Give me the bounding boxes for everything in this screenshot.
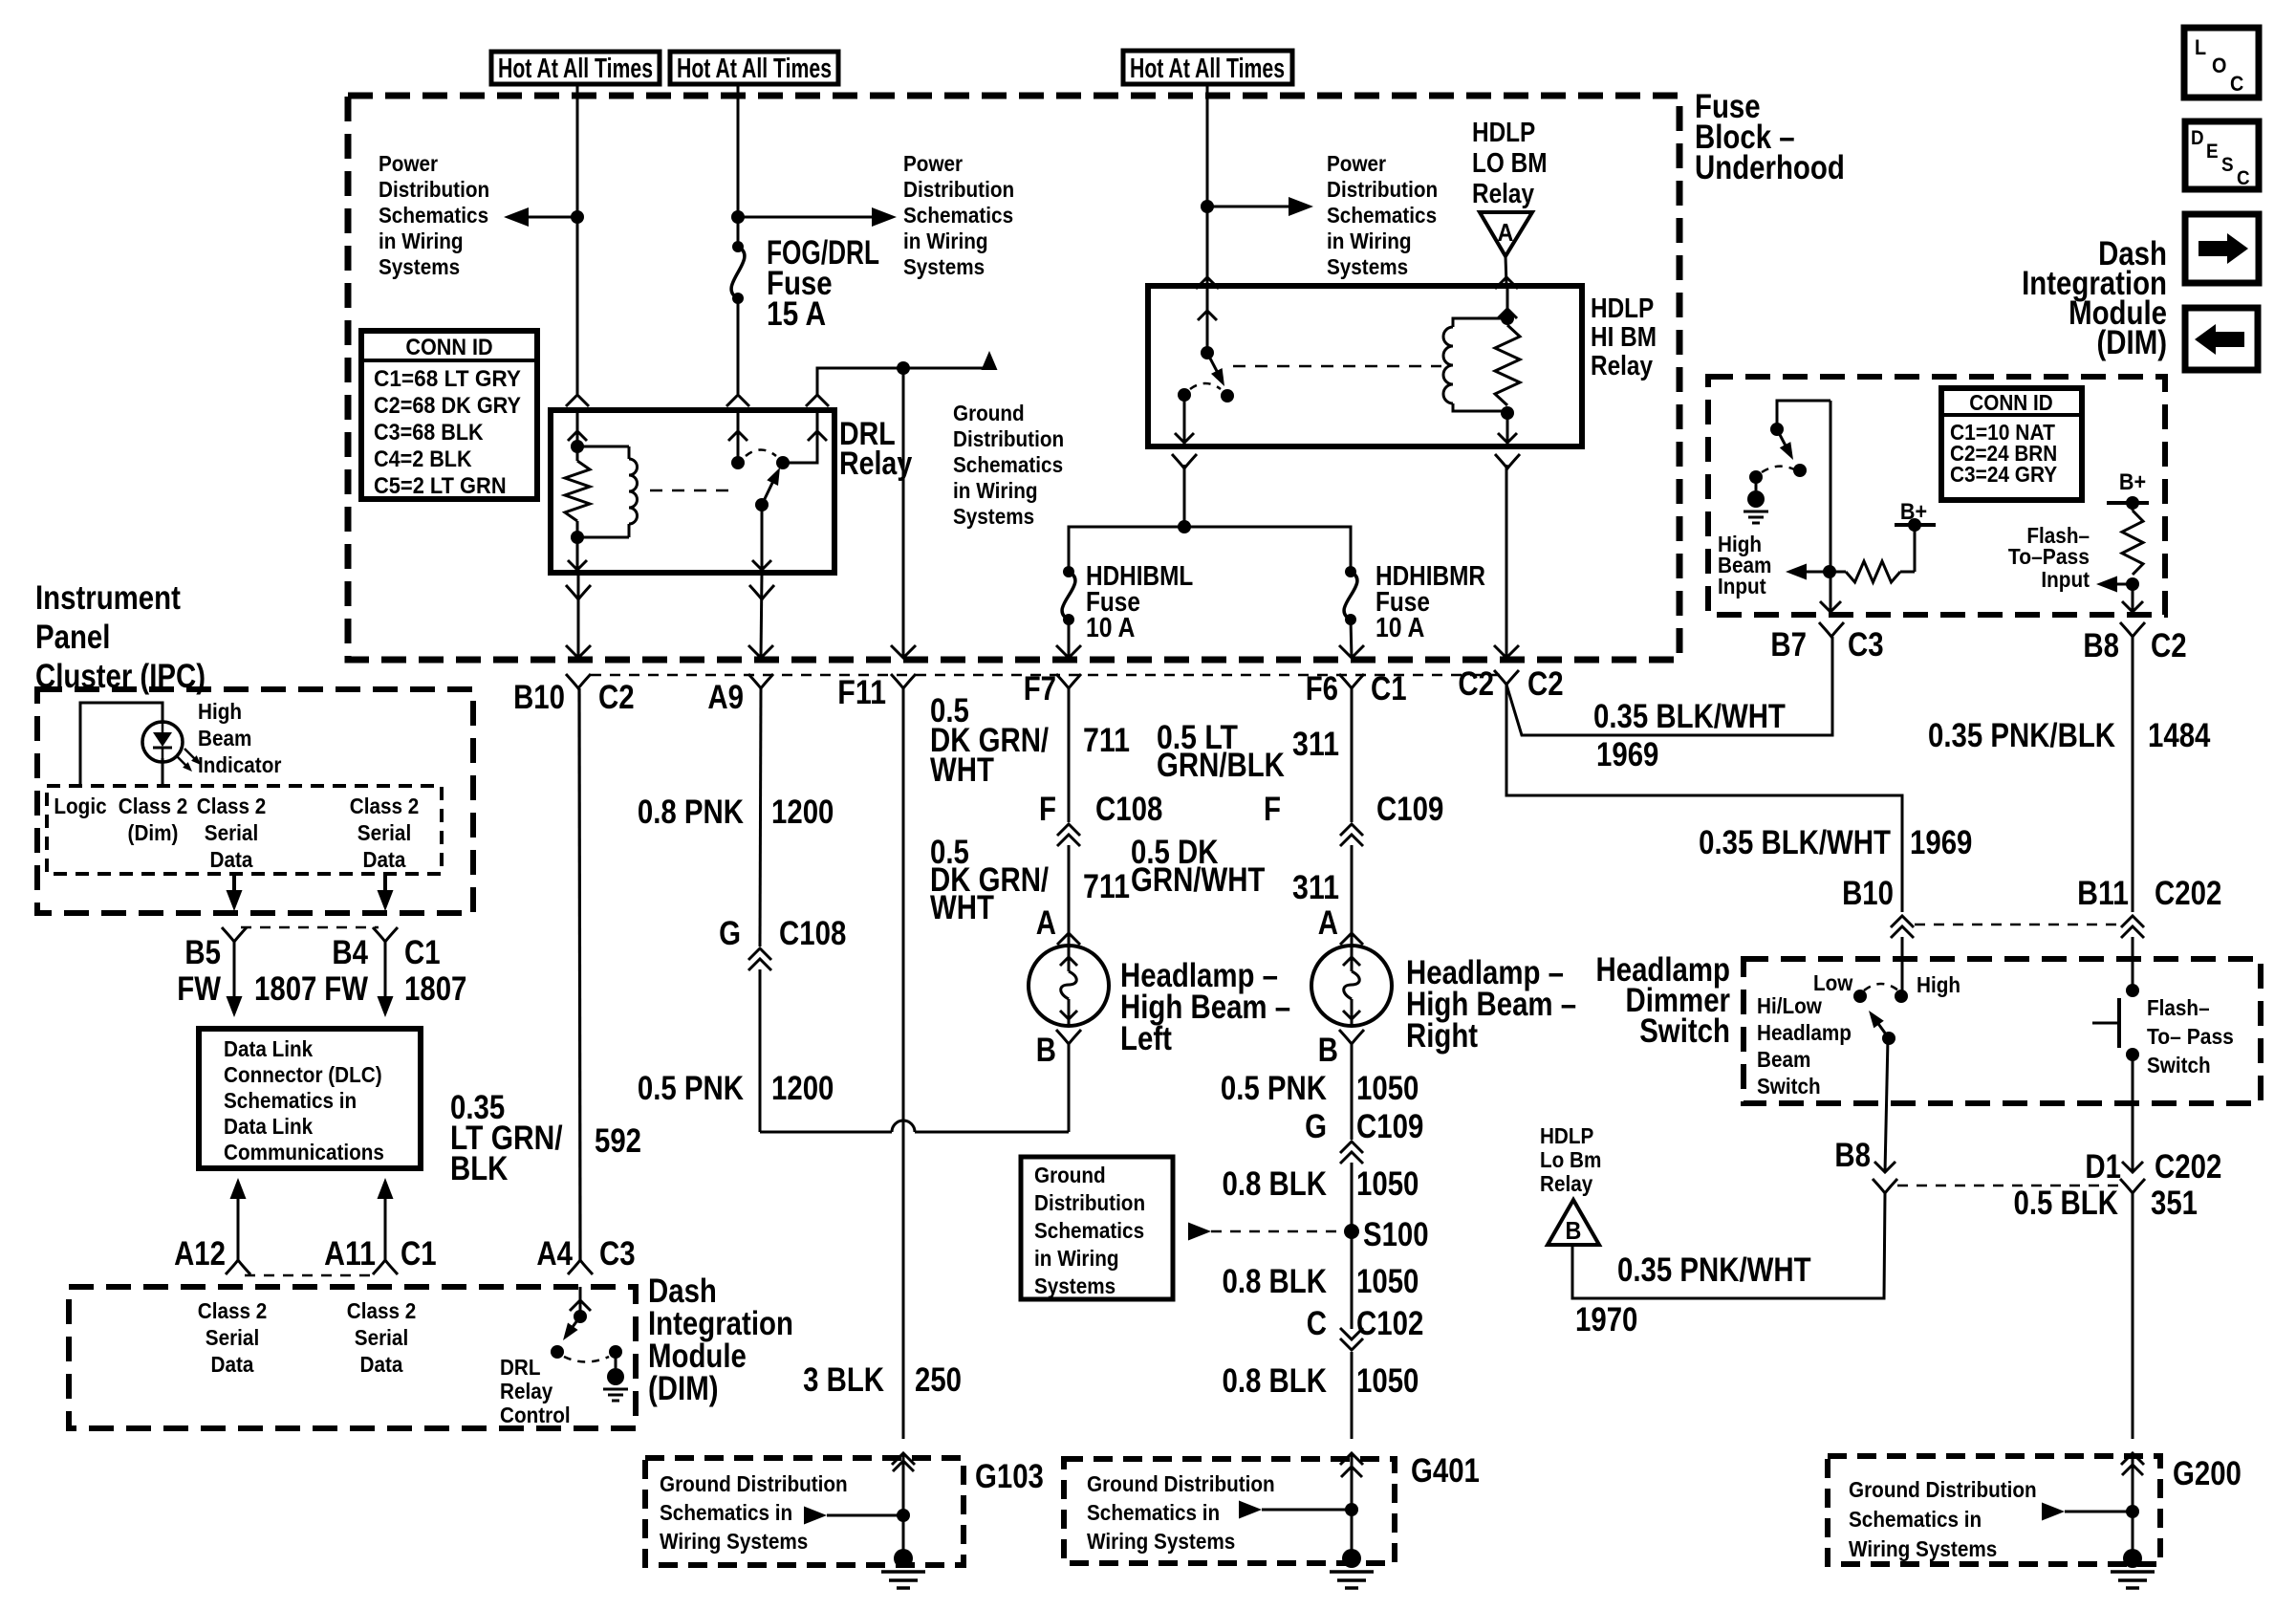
thin dashed connector line along fuse block bottom [591,674,1501,677]
junction dot flash-to-pass input [2126,577,2139,591]
svg-text:D1: D1 [2085,1148,2121,1186]
svg-text:Switch: Switch [2147,1053,2211,1077]
wire hop over ground wire [892,1120,915,1132]
svg-text:Data: Data [210,847,253,872]
legend box DESC [2185,121,2259,189]
svg-text:in Wiring: in Wiring [379,228,464,253]
wire into G401 with arrow [1351,1453,1354,1558]
svg-text:FW: FW [177,970,221,1008]
svg-text:C2: C2 [1458,665,1494,703]
wire up to B+ bar [1914,525,1917,572]
DRL relay switch arm with arrowhead [762,479,774,505]
relay HDLP HI BM Relay box [1148,286,1582,446]
svg-text:Distribution: Distribution [379,177,489,202]
connector chevron above DRL relay (switch pin) [726,395,749,406]
svg-text:0.35 PNK/WHT: 0.35 PNK/WHT [1617,1251,1811,1289]
svg-text:Systems: Systems [953,504,1034,529]
HI BM relay output wire with arrow [1183,395,1186,446]
wire FW 1807 (left) to DLC [233,942,236,996]
wire 250 BLK from F11 to G103 [902,688,905,1439]
svg-text:FW: FW [324,970,368,1008]
wire from indicator to Class 2 (Dim) line [162,758,164,786]
svg-text:GRN/WHT: GRN/WHT [1131,861,1265,899]
module box Dash Integration Module (bottom, dashed outline) [69,1287,636,1428]
svg-text:C: C [1307,1305,1327,1342]
wire from FOG/DRL fuse to DRL relay [737,298,740,394]
svg-text:Relay: Relay [500,1379,552,1403]
connector chevron above G200 [2121,1453,2144,1465]
svg-text:E: E [2206,141,2219,163]
connector D1/C202 [2120,1179,2145,1193]
svg-text:C1=68 LT GRY: C1=68 LT GRY [374,366,521,392]
svg-text:HDLP: HDLP [1540,1123,1593,1148]
arrow from ground distribution note to G401 wire [1239,1501,1262,1519]
svg-text:Power: Power [1327,151,1386,176]
resistor inside HI BM relay [1495,325,1520,405]
svg-text:0.35 BLK/WHT: 0.35 BLK/WHT [1699,824,1891,861]
connector chevron below HI BM relay coil [1495,454,1520,468]
svg-text:Wiring Systems: Wiring Systems [660,1529,808,1554]
ground block G401 (dashed outline) [1064,1459,1395,1563]
svg-text:Schematics in: Schematics in [224,1088,357,1113]
DRL relay switch common contact dot [731,456,745,469]
svg-text:C2=68 DK GRY: C2=68 DK GRY [374,393,521,419]
wire A11 from DIM to DLC with arrow [378,1178,394,1199]
note box Data Link Connector (DLC) [199,1029,421,1168]
power feed box 'Hot At All Times' (left) [491,52,660,84]
svg-text:Schematics: Schematics [903,203,1013,228]
connector A12 [226,1260,250,1274]
svg-text:0.8 PNK: 0.8 PNK [638,794,744,831]
wire split to HDHIBML and HDHIBMR fuses [1069,527,1351,572]
svg-text:351: 351 [2151,1185,2198,1222]
svg-text:G401: G401 [1411,1452,1480,1490]
svg-text:in Wiring: in Wiring [1034,1246,1119,1271]
lamp Headlamp High Beam Left [1029,946,1109,1026]
svg-text:1050: 1050 [1356,1263,1419,1300]
svg-text:Ground: Ground [1034,1163,1106,1187]
light rays of indicator [176,755,189,769]
svg-text:C4=2 BLK: C4=2 BLK [374,446,472,472]
svg-text:Data: Data [360,1352,403,1377]
DRL relay control linkage dashed arc [564,1357,609,1362]
svg-text:B10: B10 [1842,875,1894,912]
svg-text:Power: Power [379,151,438,176]
junction dot in G401 [1345,1503,1358,1516]
thin dashed connector line B10-B11 [1915,924,2120,926]
svg-text:High: High [1917,972,1960,997]
svg-text:B8: B8 [1834,1137,1871,1174]
svg-text:311: 311 [1292,869,1339,906]
svg-text:A: A [1036,904,1056,942]
connector chevron above DRL relay (output pin) [806,395,829,406]
module box Instrument Panel Cluster (dashed outline) [37,689,473,913]
HI BM relay NO contact dot [1221,389,1234,402]
svg-text:0.5 PNK: 0.5 PNK [1221,1070,1327,1107]
arrow to Power Distribution Schematics (right) [1207,206,1306,208]
svg-text:A11: A11 [324,1235,376,1273]
resistor from B7 wire to B+ (DIM) [1830,571,1846,574]
wire 1200 PNK from A9 to C108 [760,688,761,946]
wire from flash-to-pass switch to D1 [2132,1055,2134,1172]
DRL relay control switch arm with arrowhead [570,1316,580,1331]
arrow High Beam Input [1791,571,1830,574]
junction dot on wire 2 [731,210,745,224]
HI BM relay junction dot top [1501,312,1514,325]
svg-text:Instrument: Instrument [35,579,181,617]
arrow at fuse block border (F11) [891,645,916,658]
DRL relay switch arm pivot dot [755,498,769,511]
svg-text:F11: F11 [837,674,886,711]
svg-text:Serial: Serial [205,820,258,845]
svg-text:3 BLK: 3 BLK [803,1361,884,1399]
svg-text:B: B [1318,1032,1338,1069]
svg-text:F7: F7 [1024,670,1056,707]
svg-text:in Wiring: in Wiring [953,478,1038,503]
svg-text:B11: B11 [2077,875,2129,912]
svg-text:Right: Right [1406,1017,1478,1055]
svg-text:Hot At All Times: Hot At All Times [1130,54,1285,84]
svg-text:Serial: Serial [355,1325,408,1350]
svg-text:L: L [2195,35,2206,59]
DRL relay switch input wire with arrow [737,410,740,463]
svg-text:G: G [719,915,741,952]
svg-text:0.8 BLK: 0.8 BLK [1223,1362,1328,1400]
svg-text:C3: C3 [1848,626,1884,664]
svg-text:GRN/BLK: GRN/BLK [1157,747,1285,784]
svg-text:C108: C108 [1095,791,1162,828]
fuse FOG/DRL 15 A [732,241,744,252]
connector A9/F11-left on PNK wire [748,674,773,688]
svg-text:1050: 1050 [1356,1165,1419,1203]
junction dot at ground distribution branch [897,361,910,375]
connector chevron above DRL relay (left pin) [566,395,589,406]
junction dot on wire 1 [571,210,584,224]
power feed box 'Hot At All Times' (right) [1123,51,1292,84]
high beam switch contact dot (left) [1749,470,1763,484]
svg-text:1200: 1200 [771,1070,834,1107]
wire 1484 PNK/BLK from B8 to B11 [2132,637,2134,912]
svg-text:Class 2: Class 2 [198,1298,268,1323]
svg-text:C2: C2 [598,679,635,716]
svg-text:Underhood: Underhood [1695,149,1845,186]
arrow from ground distribution note to G200 wire [2042,1503,2065,1521]
arrow to Ground Distribution Schematics note [982,351,998,370]
svg-text:(Dim): (Dim) [128,820,179,845]
svg-text:Input: Input [2041,567,2090,592]
svg-text:Ground Distribution: Ground Distribution [1087,1471,1275,1496]
svg-text:Systems: Systems [1327,254,1408,279]
dimmer switch pivot dot [1882,1032,1895,1045]
high beam switch contact dot (right) [1793,464,1807,477]
svg-text:C109: C109 [1376,791,1443,828]
svg-text:Class 2: Class 2 [350,794,420,818]
HI BM relay NC contact dot [1178,388,1191,402]
wire from middle Hot At All Times to FOG/DRL fuse [737,84,740,247]
HI BM relay coil output wire with arrow [1506,413,1509,446]
wire into G103 with arrow [902,1453,905,1558]
connector F11 on ground wire [891,674,916,688]
DRL relay junction dot bottom [571,531,584,544]
junction dot in G200 [2126,1505,2139,1518]
DRL relay switch output wire with arrow [761,505,764,573]
svg-text:Schematics: Schematics [1034,1218,1144,1243]
svg-text:1200: 1200 [771,794,834,831]
wire from left Hot At All Times into fuse block to DRL relay [576,84,579,394]
wire B7 inside DIM down to border [1830,401,1832,612]
wire B10 into dimmer switch High contact [1901,937,1904,996]
DRL relay control contact dot (right) [609,1345,622,1359]
high beam switch actuator symbol [1755,477,1758,490]
svg-text:0.5 PNK: 0.5 PNK [638,1070,744,1107]
wire from A triangle to HDLP HI BM relay [1505,256,1506,285]
svg-text:Hi/Low: Hi/Low [1757,993,1822,1018]
svg-text:B5: B5 [184,934,221,971]
svg-text:Left: Left [1120,1020,1172,1057]
HI BM relay contact linkage dashed arc [1190,383,1221,389]
svg-text:Hot At All Times: Hot At All Times [498,54,653,84]
svg-text:Indicator: Indicator [198,752,281,777]
wire HI BM coil to border C2 [1505,465,1508,658]
svg-text:Serial: Serial [206,1325,259,1350]
wire from HI BM relay output to fuse split [1183,465,1186,527]
dimmer switch High contact dot [1895,990,1908,1003]
svg-text:1969: 1969 [1596,736,1658,773]
svg-text:Connector (DLC): Connector (DLC) [224,1062,382,1087]
DRL relay control actuator symbol [615,1352,617,1368]
wire 1200 PNK from C108 to left headlamp B [759,969,762,1132]
connector chevron below DRL relay switch-side [749,585,774,599]
svg-text:Ground Distribution: Ground Distribution [1849,1477,2037,1502]
svg-text:Beam: Beam [198,726,251,751]
svg-text:F: F [1039,791,1056,828]
svg-text:Systems: Systems [903,254,985,279]
svg-text:BLK: BLK [450,1150,508,1187]
ground block G103 (dashed outline) [645,1458,964,1565]
wire HDHIBMR fuse to border F6 [1351,620,1352,658]
svg-text:Control: Control [500,1403,571,1427]
svg-text:C: C [2237,167,2250,189]
DRL relay junction dot top [571,440,584,453]
lamp Headlamp High Beam Right [1311,946,1392,1026]
wire HDHIBML fuse to border F7 [1068,620,1071,658]
connector F6/C1 on right high-beam wire [1339,674,1364,688]
arrow Flash-To-Pass Input [2102,583,2133,586]
wire C2 to B7 (0.35 BLK/WHT 1969 upper) [1506,637,1832,735]
wire 711 DK GRN/WHT from F7 to C108 [1068,688,1071,822]
connector B8 below dimmer switch [1873,1179,1897,1193]
svg-text:C5=2 LT GRN: C5=2 LT GRN [374,473,507,499]
wire from DRL relay output up to ground-distribution branch [817,368,989,395]
note box Ground Distribution Schematics in Wiring Systems (middle) [1021,1157,1173,1299]
DRL relay control switch pivot dot [574,1310,587,1323]
svg-text:A9: A9 [707,679,744,716]
ground symbol G103 [894,1549,913,1568]
svg-text:C3: C3 [599,1235,636,1273]
svg-text:1484: 1484 [2148,717,2211,754]
svg-text:HDLP: HDLP [1591,294,1654,324]
wire B11 into flash-to-pass switch [2132,937,2134,990]
svg-text:Data Link: Data Link [224,1114,313,1139]
wire from branch junction down to fuse block edge [902,368,905,658]
wire B4 class 2 serial data out of IPC [383,874,387,906]
svg-text:Schematics: Schematics [1327,203,1437,228]
indicator lamp High Beam Indicator (LED) [142,722,183,762]
HI BM relay switch arm with arrowhead [1207,353,1219,375]
wire 711 from C108 to headlamp A [1068,845,1071,947]
svg-text:1969: 1969 [1910,824,1972,861]
svg-text:Lo Bm: Lo Bm [1540,1147,1601,1172]
svg-text:A: A [1498,218,1514,247]
svg-text:592: 592 [595,1122,641,1160]
relay DRL Relay box [551,410,834,573]
svg-text:F6: F6 [1306,670,1338,707]
svg-text:Panel: Panel [35,619,110,656]
HI BM relay junction dot bottom [1501,406,1514,420]
connector B4/C1 [373,927,398,942]
connector B8/C2 out of DIM [2120,622,2145,637]
resistor from B+ to flash-to-pass input [2122,511,2143,575]
connector B7/C3 into DIM [1819,622,1844,637]
svg-text:A4: A4 [536,1235,573,1273]
wire DRL coil output down to fuse block edge [577,573,580,658]
fuse HDHIBML 10 A [1063,566,1074,577]
svg-text:F: F [1264,791,1281,828]
svg-text:Low: Low [1813,970,1852,995]
relay contact symbol B (HDLP Lo Bm Relay) [1548,1200,1599,1245]
flash-to-pass switch lower contact dot [2126,1048,2139,1061]
svg-text:Hot At All Times: Hot At All Times [677,54,832,84]
nav box with right arrow [2185,214,2259,283]
svg-text:1050: 1050 [1356,1070,1419,1107]
arrow at fuse block border (coil output) [566,645,591,658]
svg-text:Class 2: Class 2 [197,794,267,818]
svg-text:C3=24 GRY: C3=24 GRY [1950,462,2057,487]
svg-text:Relay: Relay [1591,351,1653,381]
wire B5 class 2 serial data out of IPC [232,874,236,906]
DRL relay coil-side wire with arrow [576,410,579,446]
svg-text:0.5 BLK: 0.5 BLK [2014,1185,2119,1222]
connector chevron above HI BM relay switch pin [1196,277,1219,289]
svg-text:C1: C1 [1371,670,1407,707]
connector chevron above HI BM relay coil pin [1495,277,1518,289]
component box Fuse Block - Underhood (dashed outline) [348,96,1679,660]
svg-text:0.35 PNK/BLK: 0.35 PNK/BLK [1928,717,2115,754]
wire 311 DK GRN/WHT from C109 to headlamp A [1351,845,1354,947]
svg-text:Distribution: Distribution [1327,177,1438,202]
junction dot on wire 3 [1201,200,1214,213]
arrow to Power Distribution Schematics (middle) [738,216,889,219]
ground symbol G200 [2123,1549,2142,1568]
dashed linkage from DRL coil to switch [650,490,734,492]
svg-text:C1: C1 [404,934,441,971]
svg-text:G: G [1305,1108,1327,1145]
svg-text:Distribution: Distribution [1034,1190,1145,1215]
svg-text:C2: C2 [2151,627,2187,664]
svg-text:Schematics: Schematics [379,203,488,228]
module box Headlamp Dimmer Switch (dashed outline) [1744,959,2261,1103]
svg-text:C202: C202 [2155,875,2221,912]
svg-text:0.35 BLK/WHT: 0.35 BLK/WHT [1593,698,1786,735]
connector chevron below HI BM relay output [1172,454,1197,468]
thin dashed connector line A12-A11 [245,1274,379,1277]
table CONN ID (DIM connectors) [1941,388,2082,500]
wire 1050 BLK from C109 to S100 [1351,1163,1354,1231]
thin dashed connector line B8-D1 [1897,1185,2120,1187]
wire 311 LT GRN/BLK from F6 to C109 [1351,688,1354,822]
wire from logic to high beam indicator [80,703,162,786]
svg-text:0.8 BLK: 0.8 BLK [1223,1263,1328,1300]
junction dot at high-beam fuse split [1178,520,1191,533]
svg-text:Schematics in: Schematics in [660,1500,792,1525]
svg-text:A12: A12 [174,1235,226,1273]
relay contact symbol A (HDLP LO BM Relay feed) [1480,212,1532,256]
HI BM relay switch pivot dot [1201,346,1214,359]
svg-text:Systems: Systems [1034,1273,1116,1298]
coil inside HI BM relay [1453,318,1507,327]
arrow to Power Distribution Schematics (left) [509,216,577,219]
svg-text:C1: C1 [401,1235,437,1273]
wire 351 BLK from D1 to G200 [2132,1193,2134,1439]
svg-text:C109: C109 [1356,1108,1423,1145]
svg-text:Class 2: Class 2 [347,1298,417,1323]
svg-text:D: D [2191,127,2204,149]
dimmer switch Low contact dot [1853,990,1867,1003]
svg-text:Headlamp: Headlamp [1757,1020,1852,1045]
svg-text:Wiring Systems: Wiring Systems [1849,1536,1997,1561]
svg-text:Schematics: Schematics [953,452,1063,477]
wire 1970 PNK/WHT from B8 to Lo Bm relay [1572,1193,1885,1298]
svg-text:A: A [1318,904,1338,942]
svg-text:C102: C102 [1356,1305,1423,1342]
svg-text:Data: Data [211,1352,254,1377]
DRL relay switch linkage dashed arc [746,450,776,457]
svg-text:Ground Distribution: Ground Distribution [660,1471,848,1496]
module box Dash Integration Module (top right, dashed outline) [1708,377,2165,615]
svg-text:Wiring Systems: Wiring Systems [1087,1529,1235,1554]
svg-text:B4: B4 [332,934,368,971]
high beam input switch wire in DIM [1777,401,1830,429]
DRL relay control contact dot (left) [551,1345,564,1359]
wire B8 inside DIM down to border [2132,584,2134,612]
flash-to-pass switch upper contact dot [2126,984,2139,997]
svg-text:Schematics in: Schematics in [1087,1500,1220,1525]
svg-text:15 A: 15 A [767,295,826,333]
svg-text:1807: 1807 [254,970,316,1008]
svg-text:S100: S100 [1363,1216,1429,1253]
wire A12 from DIM to DLC with arrow [230,1178,247,1199]
dimmer switch arm with arrowhead [1876,1021,1889,1038]
svg-text:Ground: Ground [953,401,1025,425]
svg-text:WHT: WHT [930,889,994,926]
svg-text:Systems: Systems [379,254,460,279]
svg-text:LO BM: LO BM [1472,148,1548,179]
svg-text:HI BM: HI BM [1591,322,1657,353]
wire A9 down to fuse block edge [761,573,762,658]
wire 1050 BLK from S100 to C102 [1351,1231,1354,1329]
wire 592 LT GRN/BLK from B10/C2 to DIM A4/C3 [579,688,580,1260]
svg-text:S: S [2221,154,2234,176]
legend box LOC [2184,28,2259,98]
svg-text:Switch: Switch [1639,1012,1730,1050]
junction dot at high beam input [1823,565,1836,578]
svg-text:0.8 BLK: 0.8 BLK [1223,1165,1328,1203]
ground symbol G401 [1342,1549,1361,1568]
connector F7 on left high-beam wire [1056,674,1081,688]
svg-text:B: B [1036,1032,1056,1069]
svg-text:(DIM): (DIM) [648,1370,719,1407]
connector A4/C3 into DIM [568,1260,593,1274]
